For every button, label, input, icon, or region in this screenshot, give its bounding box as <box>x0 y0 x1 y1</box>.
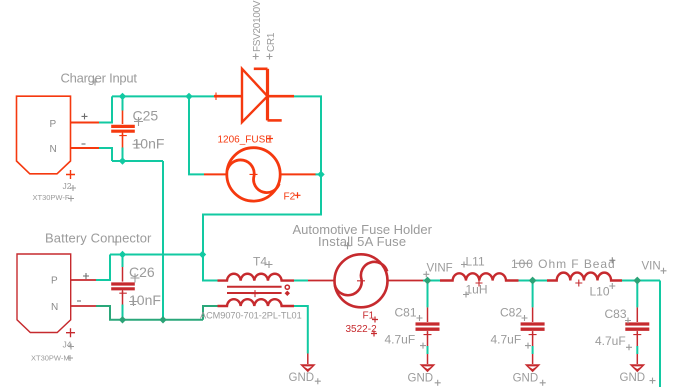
marker C25 origin cross <box>119 132 127 139</box>
pin J4 N stub <box>71 305 96 307</box>
marker 100 Ohm strike <box>516 262 532 264</box>
ground symbol notch C83 <box>633 366 641 369</box>
wire T4 upper-right to F1 <box>294 280 308 282</box>
wire charger P jog <box>99 96 112 122</box>
marker XT30PW-F origin <box>68 196 74 202</box>
svg-text:C82: C82 <box>500 306 522 320</box>
transformer T4 core lines <box>227 287 282 293</box>
node junction VIN / C83 <box>633 277 641 285</box>
svg-text:XT30PW-M: XT30PW-M <box>31 354 70 363</box>
pin mark J2 minus <box>82 143 86 145</box>
node junction L11 / C82 <box>529 277 537 285</box>
capacitor C26 bottom lead <box>122 291 124 305</box>
marker C81 origin cross <box>424 331 432 338</box>
transformer T4 upper winding <box>218 274 295 281</box>
node junction battery neg / charger N <box>159 316 166 323</box>
pin J2 P stub <box>71 122 100 124</box>
marker 1206_FUSE plus <box>267 136 273 142</box>
wire T4 upper-left lead <box>203 255 218 281</box>
marker C82 origin cross <box>529 331 537 338</box>
marker Bead plus <box>609 257 615 263</box>
svg-text:Charger Input: Charger Input <box>61 70 138 85</box>
marker 3522-2 plus <box>371 331 377 337</box>
wire T4 lower-left lead <box>203 306 218 320</box>
fuse F2 left lead <box>204 173 227 175</box>
marker F2 label plus <box>295 192 301 198</box>
wire charger N jog <box>99 148 112 161</box>
wire battery negative rail <box>123 319 204 321</box>
capacitor C25 top lead <box>122 111 124 125</box>
node junction battery rail / C26 <box>119 251 126 258</box>
wire C82 gnd red lead <box>532 354 534 364</box>
marker Battery Connector origin <box>113 239 120 246</box>
wire L11 to node <box>519 280 548 282</box>
pin J4 P stub <box>71 279 96 281</box>
marker C26 label origin <box>131 274 140 283</box>
svg-text:N: N <box>51 302 58 313</box>
fuse F2 circle <box>227 148 280 201</box>
diode CR1 anode lead <box>214 95 242 98</box>
svg-text:FSV20100V: FSV20100V <box>252 0 263 52</box>
ground symbol notch C82 <box>528 366 536 369</box>
wire top rail net CHARGE+ <box>112 95 214 97</box>
node junction C25 bottom <box>119 157 126 164</box>
wire F1 right to VINF node <box>423 280 440 282</box>
svg-text:P: P <box>51 275 58 286</box>
marker C25 label origin <box>134 117 143 126</box>
marker FSV origin <box>253 54 259 60</box>
svg-text:L11: L11 <box>466 255 485 269</box>
svg-text:GND: GND <box>408 372 434 384</box>
pin J2 N stub <box>71 147 100 149</box>
diode CR1 cathode lead <box>268 95 295 98</box>
fuse F2 wave <box>227 160 279 193</box>
wire C83 gnd gap <box>636 346 638 354</box>
marker C83 origin cross <box>633 331 641 338</box>
marker VIN plus <box>661 268 667 274</box>
svg-text:Install 5A Fuse: Install 5A Fuse <box>318 234 406 249</box>
fuse F1 right lead <box>388 280 424 282</box>
wire C81 top lead <box>427 281 429 308</box>
svg-text:GND: GND <box>513 372 539 384</box>
svg-text:L10: L10 <box>590 285 610 299</box>
wire charger N drop to battery rail <box>162 161 164 320</box>
node junction top rail / C25 <box>119 93 126 100</box>
wire C83 top lead <box>636 281 638 308</box>
fuse F1 wave <box>335 262 387 295</box>
marker CR1 origin <box>267 54 273 60</box>
ground symbol C81 <box>420 364 436 372</box>
marker C82 label plus <box>522 315 528 321</box>
connector J2 body <box>17 96 71 174</box>
wire diode cathode to right drop <box>203 96 321 254</box>
pin mark J2 plus <box>82 113 88 119</box>
wire C81 gnd red lead <box>427 354 429 364</box>
wire T4 lower-right to GND <box>294 306 308 354</box>
wire C25 bottom lead <box>122 148 124 162</box>
capacitor C25 bottom lead <box>122 133 124 147</box>
marker C83 label plus <box>625 318 631 324</box>
marker 1uH origin <box>463 292 469 298</box>
wire C81 gnd gap <box>427 346 429 354</box>
marker Install origin <box>344 242 351 249</box>
marker GND C81 origin <box>435 380 441 386</box>
svg-text:P: P <box>50 119 57 130</box>
marker T4 origin cross <box>252 290 259 297</box>
svg-text:J2: J2 <box>63 181 72 191</box>
svg-text:CR1: CR1 <box>266 32 277 52</box>
capacitor C26 top lead <box>122 267 124 282</box>
capacitor C83 bottom lead <box>636 331 638 346</box>
marker 4.7uF C81 plus <box>420 343 426 349</box>
diode CR1 top fin <box>254 68 268 71</box>
svg-text:ACM9070-701-2PL-TL01: ACM9070-701-2PL-TL01 <box>200 310 302 320</box>
node junction F2 right <box>317 171 324 178</box>
transformer T4 lower winding <box>218 299 295 306</box>
marker L10 origin cross <box>575 280 582 287</box>
marker GND C83 origin <box>650 378 656 384</box>
capacitor C83 top lead <box>636 307 638 322</box>
wire L10 to VIN node <box>622 280 660 282</box>
ground symbol notch T4 <box>304 366 312 369</box>
wire C26 top lead <box>122 255 124 267</box>
marker F1 label plus <box>372 317 378 323</box>
marker VINF origin <box>423 271 429 277</box>
marker CR1 anode pin cross <box>215 93 217 101</box>
svg-text:GND: GND <box>620 372 646 384</box>
marker 10nF label origin <box>133 140 142 149</box>
svg-text:J4: J4 <box>63 340 72 350</box>
capacitor C82 top lead <box>532 307 534 322</box>
capacitor C81 top lead <box>427 307 429 322</box>
wire C83 gnd red lead <box>636 354 638 364</box>
wire F2 right stub <box>315 173 321 175</box>
ground symbol C83 <box>629 364 645 372</box>
svg-text:1206_FUSE: 1206_FUSE <box>218 135 273 146</box>
capacitor C81 bottom lead <box>427 331 429 346</box>
marker 4.7uF C82 plus <box>525 343 531 349</box>
svg-text:4.7uF: 4.7uF <box>385 332 416 346</box>
svg-text:VIN: VIN <box>642 260 661 272</box>
wire C26 bottom lead <box>122 305 124 320</box>
diode CR1 cathode bar <box>266 69 269 121</box>
fuse F1 circle <box>335 254 388 307</box>
inductor L11 <box>440 273 519 280</box>
svg-text:4.7uF: 4.7uF <box>491 332 522 346</box>
marker 4.7uF C83 plus <box>626 344 632 350</box>
node junction battery rail / T4 <box>199 251 206 258</box>
connector J4 body <box>17 254 71 333</box>
marker C26 origin cross <box>119 290 127 297</box>
transformer T4 polarity dot lower <box>285 291 290 296</box>
marker GND C82 origin <box>540 380 546 386</box>
node junction battery neg / C26 <box>119 316 126 323</box>
marker 10nF C26 label origin <box>129 297 138 306</box>
svg-text:Battery Connector: Battery Connector <box>45 230 152 245</box>
wire battery P jog <box>96 255 110 281</box>
ground symbol notch C81 <box>423 366 431 369</box>
marker GND T4 origin <box>315 378 321 384</box>
marker T4 label origin <box>266 261 273 268</box>
wire battery N jog <box>96 306 123 320</box>
marker L11 origin cross <box>476 280 483 287</box>
marker J4 origin cross <box>66 328 75 337</box>
marker J4 label origin <box>68 344 74 350</box>
node junction top rail / F2 drop <box>185 93 192 100</box>
wire VIN drop right edge <box>659 281 661 387</box>
ground symbol C82 <box>525 364 541 372</box>
marker Charger Input origin <box>92 79 99 86</box>
transformer T4 polarity dot upper <box>285 285 289 289</box>
marker L11 origin <box>461 262 467 268</box>
fuse F1 left lead <box>308 280 335 282</box>
wire C82 top lead <box>532 281 534 308</box>
marker L10 plus <box>609 283 615 289</box>
marker F2 center cross <box>250 170 258 178</box>
svg-text:4.7uF: 4.7uF <box>595 334 626 348</box>
capacitor C82 plates <box>521 324 545 329</box>
capacitor C25 plates <box>111 126 135 131</box>
svg-text:F2: F2 <box>284 192 296 203</box>
ground symbol T4 <box>300 364 316 372</box>
wire F2 left drop <box>189 96 204 174</box>
wire battery rail BATT+ <box>110 254 203 256</box>
node junction VINF / C81 <box>424 277 432 285</box>
svg-text:100 Ohm F Bead: 100 Ohm F Bead <box>511 257 616 271</box>
capacitor C82 bottom lead <box>532 331 534 346</box>
svg-text:VINF: VINF <box>427 263 453 275</box>
svg-text:N: N <box>50 144 57 155</box>
diode CR1 bottom fin <box>268 119 282 122</box>
svg-text:C81: C81 <box>395 306 417 320</box>
wire C82 gnd gap <box>532 346 534 354</box>
capacitor C26 plates <box>111 284 135 289</box>
pin mark J4 plus <box>83 273 89 279</box>
svg-text:T4: T4 <box>253 255 267 269</box>
wire T4 gnd red lead <box>307 354 309 365</box>
wire C25 top lead <box>122 97 124 111</box>
ferrite bead L10 <box>547 273 622 281</box>
marker C81 label plus <box>417 315 423 321</box>
diode CR1 triangle <box>242 69 268 122</box>
marker XT30PW-M origin <box>67 355 73 361</box>
pin mark J4 minus <box>77 300 81 302</box>
fuse F2 right lead <box>280 173 315 175</box>
svg-text:C83: C83 <box>605 307 627 321</box>
svg-text:XT30PW-F: XT30PW-F <box>33 193 70 202</box>
marker J2 label origin <box>70 185 76 191</box>
capacitor C81 plates <box>416 324 440 329</box>
marker J2 origin cross <box>66 170 75 179</box>
svg-text:GND: GND <box>289 372 315 384</box>
wire charger N rail <box>112 160 163 162</box>
marker F1 center cross <box>357 277 365 285</box>
capacitor C83 plates <box>625 324 649 329</box>
